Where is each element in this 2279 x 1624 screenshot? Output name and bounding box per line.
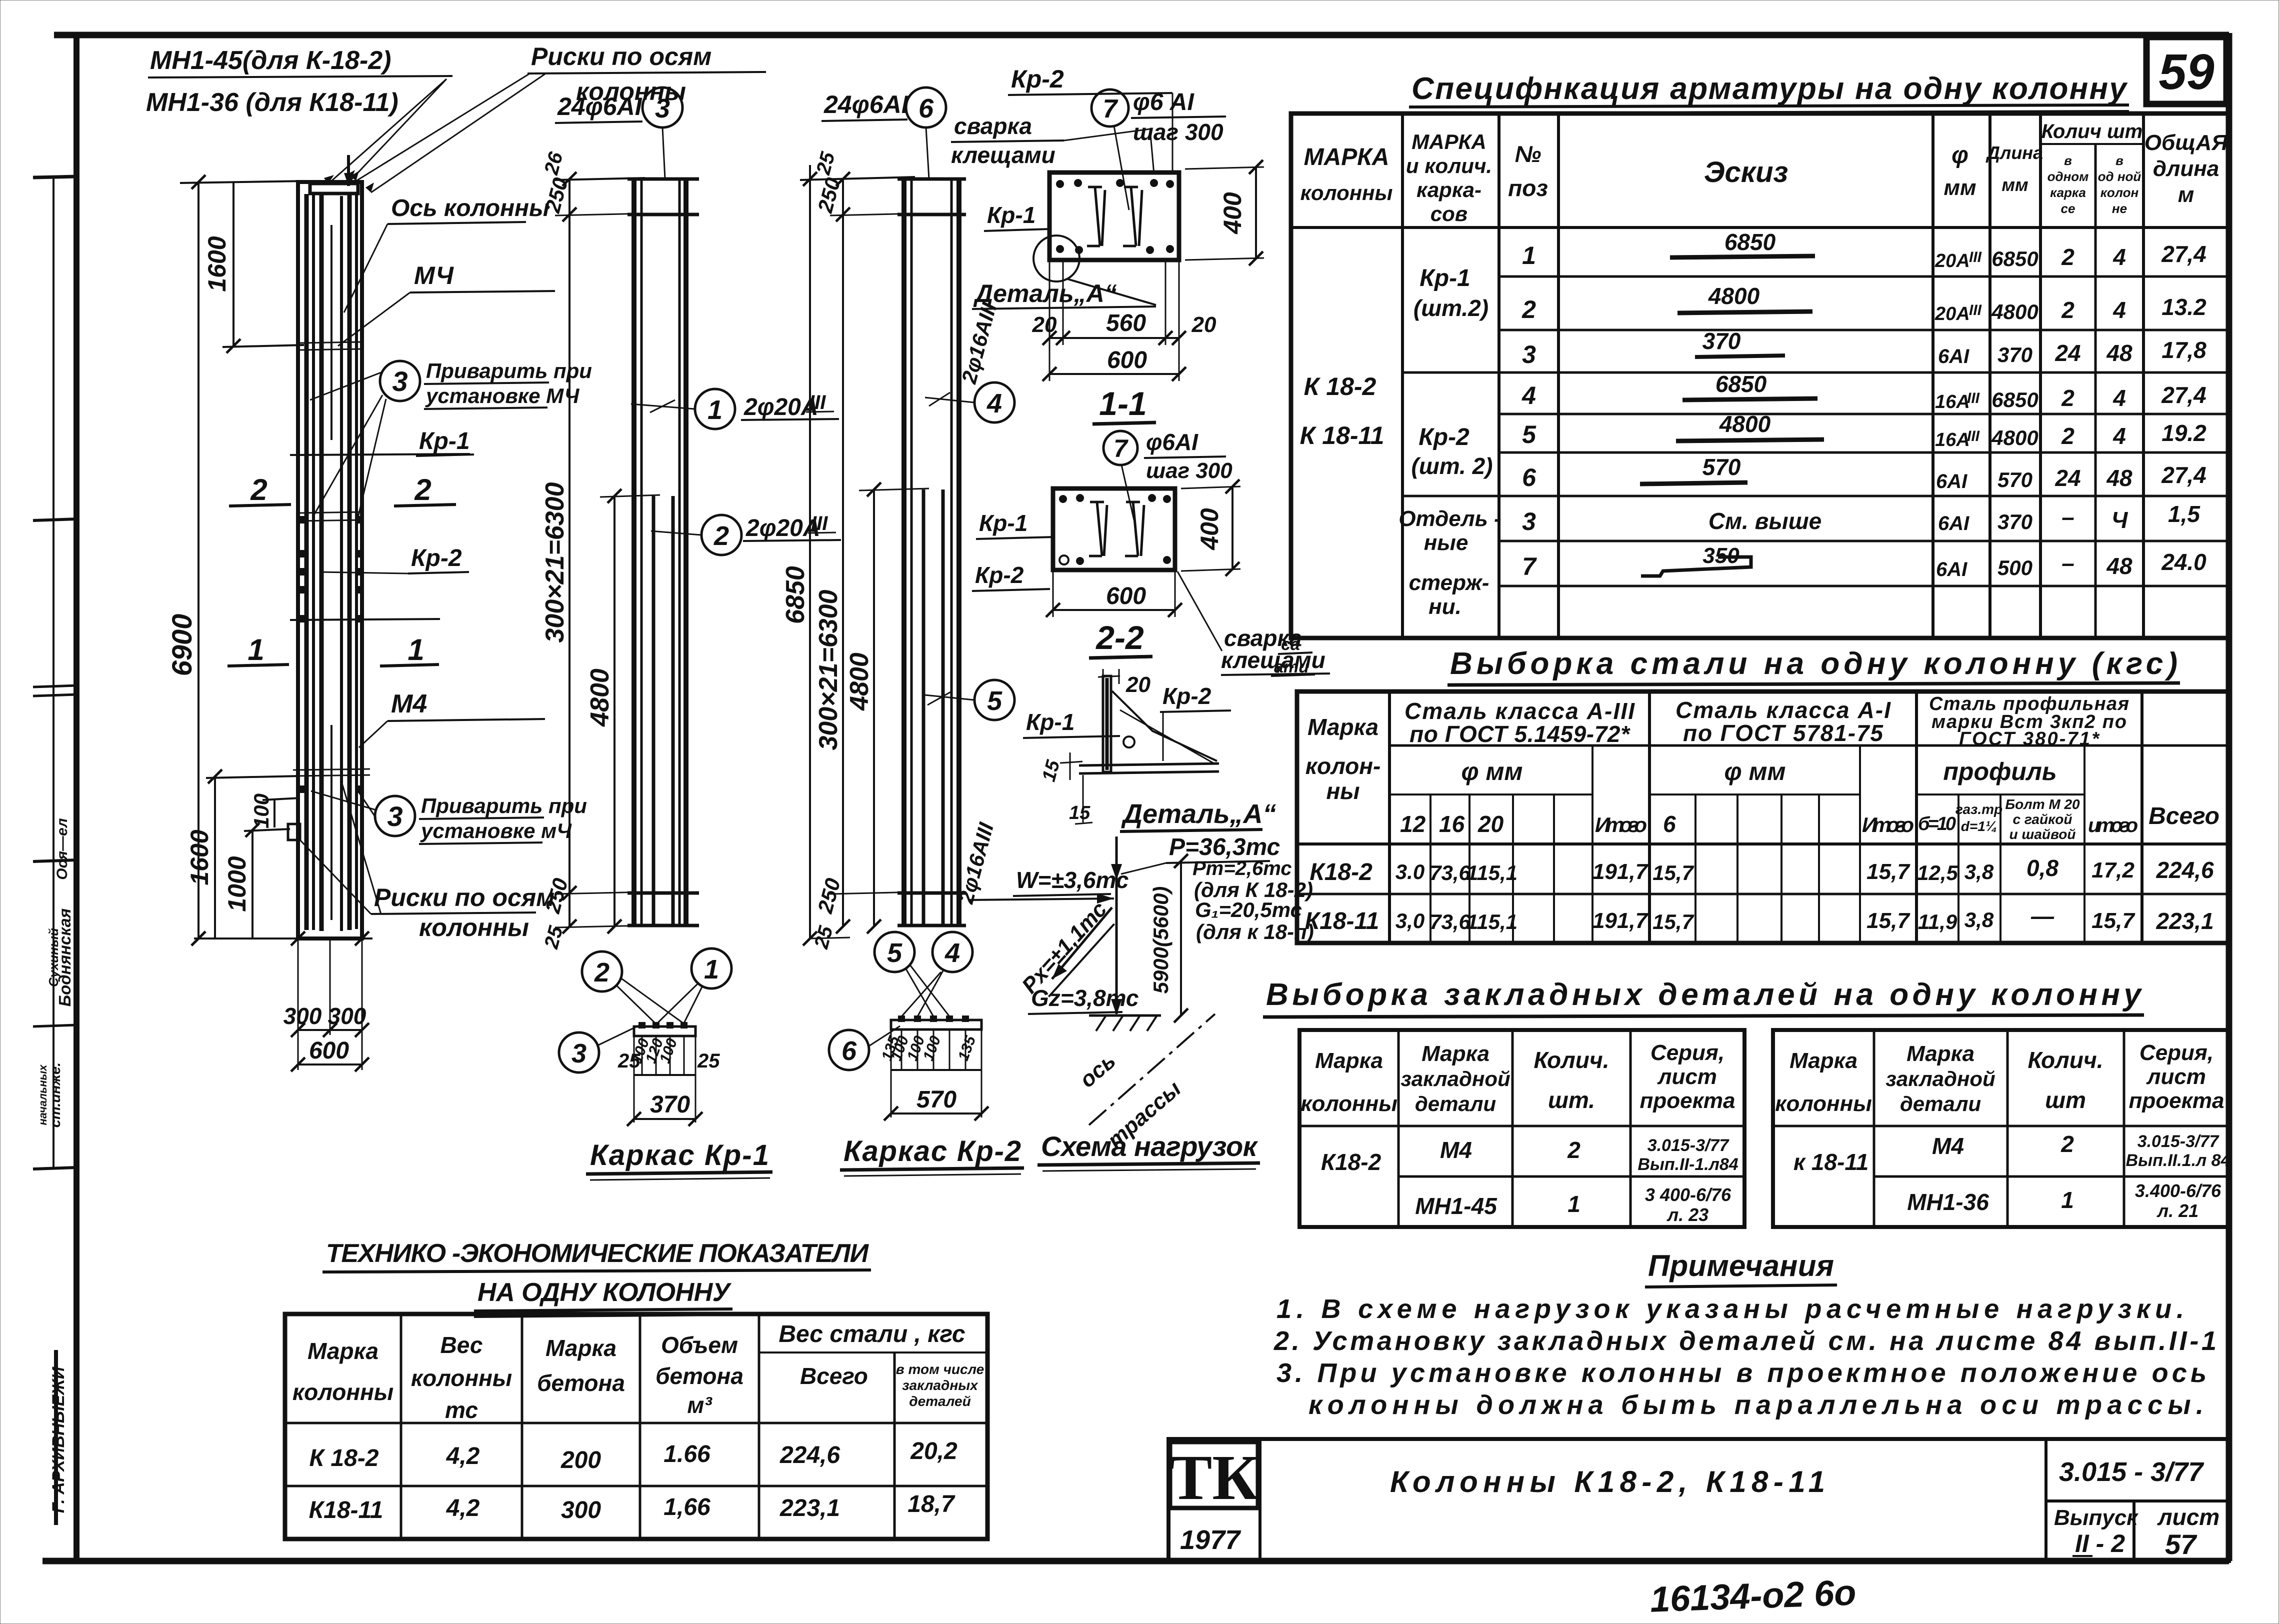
svg-text:25: 25 bbox=[697, 1050, 720, 1072]
svg-text:4800: 4800 bbox=[1991, 300, 2038, 323]
svg-text:III: III bbox=[811, 512, 828, 534]
callout circle 3 lower bbox=[311, 791, 587, 844]
svg-text:1,5: 1,5 bbox=[2168, 501, 2200, 527]
left signature strip bbox=[33, 176, 76, 1525]
svg-text:–: – bbox=[2061, 504, 2074, 530]
svg-text:4: 4 bbox=[944, 938, 960, 968]
svg-text:Gz=3,8тс: Gz=3,8тс bbox=[1031, 985, 1138, 1011]
svg-text:ст.инже.: ст.инже. bbox=[47, 1062, 63, 1127]
svg-text:закладных: закладных bbox=[902, 1377, 978, 1393]
svg-text:–: – bbox=[2061, 550, 2074, 576]
detail A drawing bbox=[1023, 669, 1276, 831]
svg-text:4800: 4800 bbox=[845, 652, 874, 711]
svg-text:15: 15 bbox=[1038, 757, 1064, 784]
label 24f6AI with circle 6 (cage 2) bbox=[821, 87, 946, 179]
svg-text:2-2: 2-2 bbox=[1095, 619, 1144, 656]
svg-text:6: 6 bbox=[918, 93, 934, 123]
svg-text:6: 6 bbox=[1663, 811, 1676, 837]
svg-text:24: 24 bbox=[2054, 340, 2080, 366]
svg-text:4: 4 bbox=[2112, 297, 2126, 323]
svg-text:са: са bbox=[1281, 635, 1300, 654]
svg-text:223,1: 223,1 bbox=[2155, 908, 2213, 934]
cage Kr-2 dimensions bbox=[781, 149, 929, 951]
svg-text:л. 21: л. 21 bbox=[2156, 1200, 2198, 1221]
svg-text:колонны: колонны bbox=[1775, 1091, 1872, 1116]
svg-text:17,2: 17,2 bbox=[2091, 858, 2134, 882]
svg-text:2. Установку закладных детал: 2. Установку закладных деталей см. на ли… bbox=[1273, 1326, 2216, 1356]
svg-text:Ося—ел: Ося—ел bbox=[54, 818, 70, 880]
svg-text:лист: лист bbox=[1657, 1064, 1717, 1089]
callout circle 2 with 2f20AIII bbox=[651, 512, 841, 555]
svg-text:поз: поз bbox=[1508, 175, 1548, 201]
svg-text:Pх=±1,1тс: Pх=±1,1тс bbox=[1017, 897, 1111, 998]
svg-text:6: 6 bbox=[1522, 463, 1536, 491]
svg-text:Объем: Объем bbox=[661, 1332, 738, 1358]
svg-text:одном: одном bbox=[2047, 169, 2089, 184]
svg-text:Кр-1: Кр-1 bbox=[1026, 709, 1074, 735]
dimension 1600 bottom bbox=[185, 769, 300, 938]
svg-text:ны: ны bbox=[1326, 778, 1359, 804]
title Vyborka stali bbox=[1447, 646, 2180, 685]
svg-text:115,1: 115,1 bbox=[1466, 910, 1517, 933]
svg-text:4: 4 bbox=[2112, 423, 2126, 449]
svg-text:57: 57 bbox=[2165, 1528, 2197, 1560]
svg-text:1: 1 bbox=[407, 633, 424, 666]
svg-text:Длина: Длина bbox=[1985, 142, 2043, 163]
svg-text:15,7: 15,7 bbox=[1652, 910, 1694, 933]
svg-text:3: 3 bbox=[1522, 507, 1536, 535]
svg-text:250: 250 bbox=[540, 175, 572, 215]
svg-text:1: 1 bbox=[2061, 1187, 2074, 1213]
svg-text:Кр-2: Кр-2 bbox=[1162, 683, 1211, 709]
svg-text:3.400-6/76: 3.400-6/76 bbox=[2135, 1180, 2221, 1201]
svg-text:15,7: 15,7 bbox=[1866, 908, 1910, 933]
svg-text:6850: 6850 bbox=[781, 566, 810, 624]
section marks 1 1 bbox=[227, 633, 439, 666]
svg-text:Кр-2: Кр-2 bbox=[1011, 65, 1064, 93]
weld squares M4 bbox=[300, 516, 307, 523]
svg-text:3: 3 bbox=[655, 93, 670, 123]
svg-text:бетона: бетона bbox=[537, 1370, 625, 1396]
svg-text:300×21=6300: 300×21=6300 bbox=[540, 482, 569, 642]
svg-text:6АI: 6АI bbox=[1938, 512, 1969, 534]
svg-text:Всего: Всего bbox=[800, 1363, 868, 1389]
svg-text:се: се bbox=[2061, 201, 2075, 216]
svg-text:4: 4 bbox=[2112, 385, 2126, 411]
svg-text:191,7: 191,7 bbox=[1592, 859, 1649, 884]
svg-text:профиль: профиль bbox=[1943, 757, 2056, 785]
svg-text:2: 2 bbox=[2060, 1131, 2074, 1157]
svg-text:570: 570 bbox=[1702, 454, 1741, 480]
svg-text:Марка: Марка bbox=[545, 1335, 616, 1361]
svg-text:3,8: 3,8 bbox=[1964, 860, 1994, 883]
technical-economic table bbox=[285, 1314, 987, 1539]
section 1-1 dims bbox=[972, 160, 1264, 424]
svg-text:48: 48 bbox=[2106, 553, 2132, 579]
svg-text:Марка: Марка bbox=[1315, 1048, 1383, 1073]
svg-text:3.015-3/77: 3.015-3/77 bbox=[1647, 1136, 1730, 1155]
svg-text:Примечания: Примечания bbox=[1648, 1249, 1834, 1282]
svg-text:Вес стали , кгс: Вес стали , кгс bbox=[778, 1321, 965, 1347]
svg-text:стерж-: стерж- bbox=[1409, 570, 1489, 595]
svg-text:Ось колонны: Ось колонны bbox=[391, 195, 549, 221]
cage Kr-1 dimensions bbox=[540, 149, 660, 951]
svg-text:шаг 300: шаг 300 bbox=[1146, 458, 1232, 483]
svg-text:1,66: 1,66 bbox=[663, 1494, 710, 1520]
svg-text:3.015-3/77: 3.015-3/77 bbox=[2137, 1132, 2220, 1151]
svg-text:4800: 4800 bbox=[585, 668, 614, 727]
svg-text:3: 3 bbox=[571, 1038, 586, 1068]
svg-text:Всего: Всего bbox=[2148, 803, 2219, 829]
svg-text:МЧ: МЧ bbox=[414, 261, 454, 289]
svg-text:шаг 300: шаг 300 bbox=[1133, 119, 1223, 145]
bottom dimension line of column bbox=[191, 931, 372, 945]
svg-text:1600: 1600 bbox=[185, 829, 213, 885]
section cut line 2-2 bbox=[290, 454, 470, 455]
svg-text:5: 5 bbox=[887, 938, 902, 968]
svg-text:2: 2 bbox=[1567, 1137, 1580, 1163]
svg-text:15,7: 15,7 bbox=[1866, 859, 1910, 884]
svg-text:(шт.2): (шт.2) bbox=[1413, 295, 1488, 321]
svg-text:Риски по осям: Риски по осям bbox=[531, 42, 711, 70]
svg-text:4,2: 4,2 bbox=[446, 1443, 480, 1469]
svg-text:6850: 6850 bbox=[1715, 371, 1767, 397]
svg-text:5: 5 bbox=[1522, 420, 1536, 448]
handwritten stamp 16134-02 bbox=[1649, 1572, 1857, 1619]
svg-text:Отдель -: Отдель - bbox=[1398, 506, 1501, 531]
svg-text:Серия,: Серия, bbox=[1650, 1040, 1724, 1065]
svg-text:карка-: карка- bbox=[1416, 178, 1481, 201]
svg-text:20: 20 bbox=[1191, 312, 1216, 337]
svg-text:лист: лист bbox=[2146, 1064, 2206, 1089]
svg-text:12,5: 12,5 bbox=[1917, 861, 1958, 884]
stray handwriting bbox=[1271, 635, 1315, 676]
svg-text:6: 6 bbox=[841, 1036, 857, 1066]
svg-text:Болт М 20: Болт М 20 bbox=[2005, 796, 2080, 812]
label MCh bbox=[338, 261, 555, 346]
svg-text:6900: 6900 bbox=[166, 614, 197, 676]
svg-text:ось: ось bbox=[1075, 1048, 1120, 1092]
svg-text:Кр-1: Кр-1 bbox=[979, 510, 1027, 536]
load scheme bbox=[969, 834, 1314, 1153]
specification table grid bbox=[1291, 113, 2229, 638]
svg-text:73,6: 73,6 bbox=[1429, 861, 1470, 884]
callout circle 5 with 2f16AIII bbox=[925, 680, 1014, 906]
svg-text:3. При установке колонны в: 3. При установке колонны в проектное пол… bbox=[1276, 1358, 2206, 1388]
svg-text:колон: колон bbox=[2100, 185, 2139, 200]
svg-text:6850: 6850 bbox=[1991, 388, 2038, 411]
embedded plate MN1 at top bbox=[310, 183, 358, 193]
svg-text:16А: 16А bbox=[1935, 391, 1970, 412]
svg-text:4: 4 bbox=[1521, 381, 1536, 409]
svg-text:Выпуск: Выпуск bbox=[2054, 1505, 2139, 1530]
svg-text:по ГОСТ 5.1459-72*: по ГОСТ 5.1459-72* bbox=[1409, 721, 1630, 747]
svg-text:12: 12 bbox=[1400, 811, 1426, 837]
svg-text:24φ6АI: 24φ6АI bbox=[557, 92, 642, 120]
svg-text:1. В схеме нагрузок указаны: 1. В схеме нагрузок указаны расчетные на… bbox=[1276, 1294, 2184, 1324]
svg-text:7: 7 bbox=[1522, 552, 1537, 580]
svg-text:карка: карка bbox=[2050, 185, 2086, 200]
svg-text:Сухиный: Сухиный bbox=[46, 928, 61, 987]
svg-text:с гайкой: с гайкой bbox=[2013, 811, 2072, 827]
callout circle 7 with f6AI shag 300 (top) bbox=[1091, 89, 1226, 210]
svg-text:Кр-1: Кр-1 bbox=[1419, 265, 1470, 291]
svg-text:и колич.: и колич. bbox=[1406, 154, 1492, 177]
svg-text:колонны: колонны bbox=[411, 1365, 512, 1391]
svg-text:Эскиз: Эскиз bbox=[1704, 156, 1788, 188]
svg-text:№: № bbox=[1515, 141, 1541, 167]
svg-text:200: 200 bbox=[560, 1447, 601, 1473]
svg-text:Риски по осям: Риски по осям bbox=[374, 883, 554, 911]
callout circle 1 with 2f20AIII bbox=[631, 389, 839, 429]
svg-text:клещами: клещами bbox=[1221, 647, 1325, 673]
svg-text:24: 24 bbox=[2054, 465, 2080, 491]
svg-text:17,8: 17,8 bbox=[2161, 337, 2206, 363]
svg-text:К18-2: К18-2 bbox=[1321, 1149, 1381, 1175]
svg-text:370: 370 bbox=[1997, 510, 2032, 533]
label Riski po osyam kolonny (top) bbox=[344, 42, 766, 192]
svg-text:детали: детали bbox=[1415, 1092, 1496, 1115]
svg-text:2: 2 bbox=[713, 521, 729, 551]
svg-text:Выборка закладных деталей на о: Выборка закладных деталей на одну колонн… bbox=[1266, 977, 2143, 1012]
svg-text:27,4: 27,4 bbox=[2161, 462, 2206, 488]
svg-text:не: не bbox=[2112, 201, 2127, 216]
svg-text:колонны: колонны bbox=[292, 1379, 393, 1405]
svg-text:Сталь класса А-III: Сталь класса А-III bbox=[1404, 698, 1635, 724]
svg-text:20: 20 bbox=[1477, 811, 1504, 837]
svg-text:20: 20 bbox=[1032, 312, 1057, 337]
svg-text:шт: шт bbox=[2045, 1087, 2086, 1113]
svg-text:19.2: 19.2 bbox=[2161, 420, 2206, 446]
svg-text:Марка: Марка bbox=[1307, 714, 1378, 740]
svg-text:детали: детали bbox=[1900, 1092, 1981, 1115]
svg-text:11,9: 11,9 bbox=[1918, 910, 1957, 933]
svg-text:1: 1 bbox=[707, 395, 722, 425]
title block bbox=[1168, 1439, 2229, 1561]
svg-text:2φ16АIII: 2φ16АIII bbox=[957, 299, 1001, 386]
svg-text:Приварить при: Приварить при bbox=[426, 359, 592, 382]
label svarka kleschami (bottom) bbox=[1177, 571, 1330, 675]
svg-text:в том числе: в том числе bbox=[896, 1361, 984, 1377]
svg-text:Кр-2: Кр-2 bbox=[1418, 424, 1469, 450]
svg-text:7: 7 bbox=[1113, 434, 1128, 462]
svg-text:0,8: 0,8 bbox=[2026, 855, 2058, 881]
svg-text:6850: 6850 bbox=[1724, 229, 1776, 255]
svg-text:К 18-2: К 18-2 bbox=[309, 1445, 379, 1471]
svg-text:л. 23: л. 23 bbox=[1666, 1204, 1708, 1225]
svg-text:бетона: бетона bbox=[655, 1363, 743, 1389]
svg-text:16: 16 bbox=[1439, 811, 1465, 837]
svg-text:1: 1 bbox=[1567, 1191, 1580, 1217]
svg-text:М4: М4 bbox=[391, 689, 427, 718]
svg-text:6850: 6850 bbox=[1991, 247, 2038, 270]
svg-text:колонны должна быть паралле: колонны должна быть параллельна оси трас… bbox=[1308, 1390, 2203, 1420]
svg-text:2: 2 bbox=[1521, 295, 1536, 323]
svg-text:ТК: ТК bbox=[1169, 1442, 1258, 1513]
svg-text:600: 600 bbox=[309, 1037, 349, 1064]
label 24f6AI with circle 3 (cage 1) bbox=[555, 87, 682, 179]
svg-text:сварка: сварка bbox=[954, 113, 1032, 139]
svg-text:φ6АI: φ6АI bbox=[1146, 429, 1198, 455]
steel selection table grid bbox=[1297, 691, 2229, 943]
svg-text:Колич.: Колич. bbox=[1534, 1047, 1609, 1073]
svg-text:Деталь„А“: Деталь„А“ bbox=[973, 279, 1117, 307]
svg-text:3: 3 bbox=[387, 800, 402, 832]
label MN1-45 / MN1-36 bbox=[146, 46, 452, 184]
svg-text:59: 59 bbox=[2158, 44, 2214, 100]
svg-text:б=10: б=10 bbox=[1918, 813, 1956, 834]
svg-text:III: III bbox=[1967, 428, 1980, 444]
svg-text:м³: м³ bbox=[687, 1392, 712, 1418]
svg-text:Марка: Марка bbox=[1906, 1041, 1974, 1066]
svg-text:6АI: 6АI bbox=[1938, 345, 1969, 367]
steel selection data rows bbox=[1305, 855, 2214, 934]
title Vyborka zakladnykh detaley bbox=[1263, 977, 2144, 1017]
svg-text:2: 2 bbox=[594, 957, 609, 987]
svg-text:18,7: 18,7 bbox=[907, 1491, 955, 1517]
svg-text:3.015 - 3/77: 3.015 - 3/77 bbox=[2059, 1457, 2204, 1487]
svg-text:Итого: Итого bbox=[1595, 813, 1647, 836]
svg-text:по ГОСТ 5781-75: по ГОСТ 5781-75 bbox=[1683, 720, 1883, 746]
svg-text:Кр-1: Кр-1 bbox=[419, 428, 470, 454]
embedded details table right bbox=[1773, 1030, 2230, 1227]
svg-text:МАРКА: МАРКА bbox=[1304, 144, 1389, 170]
svg-text:16134-о2 6о: 16134-о2 6о bbox=[1649, 1572, 1857, 1619]
svg-text:300: 300 bbox=[283, 1003, 322, 1029]
svg-text:25: 25 bbox=[617, 1050, 640, 1072]
label M4 bbox=[359, 689, 545, 747]
label Os kolonny bbox=[344, 195, 549, 312]
svg-text:колонны: колонны bbox=[1300, 1091, 1397, 1116]
svg-text:1977: 1977 bbox=[1180, 1525, 1241, 1555]
svg-text:20: 20 bbox=[1125, 672, 1150, 697]
caption Karkas Kr-2 bbox=[840, 1135, 1024, 1176]
svg-text:Вып.II.1.л 84: Вып.II.1.л 84 bbox=[2126, 1151, 2230, 1170]
svg-text:25: 25 bbox=[810, 923, 837, 951]
svg-text:24.0: 24.0 bbox=[2161, 549, 2206, 575]
label Riski po osyam kolonny (bottom) bbox=[300, 780, 554, 941]
column axis line bbox=[330, 225, 332, 440]
callout circle 3 upper: privarit pri ustanovke MCh bbox=[310, 359, 592, 517]
svg-text:3: 3 bbox=[392, 365, 407, 397]
svg-text:К 18-11: К 18-11 bbox=[1300, 421, 1384, 449]
svg-text:М4: М4 bbox=[1932, 1133, 1964, 1159]
svg-text:Деталь„А“: Деталь„А“ bbox=[1121, 799, 1276, 829]
svg-text:установке мЧ: установке мЧ bbox=[420, 819, 572, 842]
svg-text:МН1-45: МН1-45 bbox=[1415, 1193, 1497, 1219]
svg-text:224,6: 224,6 bbox=[2155, 857, 2214, 883]
svg-text:3: 3 bbox=[1522, 340, 1536, 368]
svg-text:Каркас Кр-2: Каркас Кр-2 bbox=[843, 1135, 1021, 1167]
svg-text:φ: φ bbox=[1951, 142, 1968, 168]
title Tekhniko-ekonomicheskie pokazateli bbox=[322, 1239, 871, 1317]
svg-text:5: 5 bbox=[987, 686, 1002, 716]
dimensions 300 300 600 below column bbox=[283, 938, 369, 1071]
svg-text:48: 48 bbox=[2106, 465, 2132, 491]
svg-text:4800: 4800 bbox=[1719, 411, 1771, 437]
embedded details table left bbox=[1299, 1030, 1744, 1227]
svg-text:Pт=2,6тс: Pт=2,6тс bbox=[1192, 857, 1292, 879]
caption Karkas Kr-1 bbox=[586, 1139, 772, 1180]
svg-text:III: III bbox=[1969, 249, 1982, 265]
label Kr-1 pointer bbox=[416, 428, 474, 456]
svg-text:5900(5600): 5900(5600) bbox=[1149, 886, 1172, 994]
svg-text:длина: длина bbox=[2153, 156, 2219, 181]
svg-text:МН1-45(для К-18-2): МН1-45(для К-18-2) bbox=[150, 46, 391, 75]
section 2-2 dims bbox=[972, 479, 1240, 658]
svg-text:начальных: начальных bbox=[36, 1064, 49, 1125]
svg-text:Итого: Итого bbox=[1862, 813, 1914, 836]
svg-text:закладной: закладной bbox=[1885, 1067, 1995, 1090]
svg-text:2: 2 bbox=[2061, 423, 2074, 449]
specification table header texts bbox=[1300, 120, 2228, 225]
svg-text:600: 600 bbox=[1106, 583, 1146, 609]
svg-text:Колонны К18-2, К18-11: Колонны К18-2, К18-11 bbox=[1390, 1465, 1825, 1498]
specification table left column texts bbox=[1300, 265, 1501, 619]
svg-text:26: 26 bbox=[540, 149, 567, 177]
svg-text:6АI: 6АI bbox=[1936, 470, 1967, 492]
svg-text:Серия,: Серия, bbox=[2139, 1040, 2213, 1065]
svg-text:G₁=20,5тс: G₁=20,5тс bbox=[1195, 898, 1302, 921]
svg-text:II - 2: II - 2 bbox=[2075, 1529, 2125, 1557]
svg-text:1.66: 1.66 bbox=[663, 1441, 710, 1467]
svg-text:III: III bbox=[1969, 302, 1982, 318]
svg-text:300×21=6300: 300×21=6300 bbox=[814, 589, 843, 750]
svg-text:2: 2 bbox=[250, 473, 267, 506]
svg-text:Ч: Ч bbox=[2111, 507, 2128, 533]
svg-text:1: 1 bbox=[704, 954, 719, 984]
rebar cage Kr-1 bbox=[627, 179, 699, 926]
svg-text:1000: 1000 bbox=[223, 856, 251, 911]
svg-text:7: 7 bbox=[1103, 94, 1118, 123]
svg-text:370: 370 bbox=[1702, 328, 1741, 354]
svg-text:III: III bbox=[1967, 390, 1980, 406]
svg-text:1600: 1600 bbox=[203, 236, 231, 291]
axis mark lines at bottom bbox=[293, 769, 370, 770]
svg-text:600: 600 bbox=[1107, 347, 1147, 373]
sheet number box 59 bbox=[2146, 37, 2226, 104]
svg-text:К18-2: К18-2 bbox=[1309, 859, 1372, 885]
svg-text:мм: мм bbox=[2001, 174, 2028, 195]
svg-text:в: в bbox=[2064, 153, 2072, 168]
svg-text:к 18-11: к 18-11 bbox=[1793, 1149, 1868, 1175]
svg-text:Г. АРХИВНЫЕЖИ: Г. АРХИВНЫЕЖИ bbox=[49, 1366, 68, 1513]
svg-text:W=±3,6тс: W=±3,6тс bbox=[1016, 867, 1128, 893]
svg-text:27,4: 27,4 bbox=[2161, 241, 2206, 267]
svg-text:М4: М4 bbox=[1440, 1137, 1472, 1163]
svg-text:100: 100 bbox=[249, 793, 273, 828]
svg-text:ОбщАЯ: ОбщАЯ bbox=[2144, 130, 2228, 155]
svg-text:27,4: 27,4 bbox=[2161, 382, 2206, 408]
svg-text:400: 400 bbox=[1218, 192, 1246, 234]
svg-text:колонны: колонны bbox=[1300, 181, 1393, 204]
plan dims 25 100 120 100 25 bbox=[641, 1036, 643, 1075]
svg-text:370: 370 bbox=[650, 1091, 690, 1118]
svg-text:од ной: од ной bbox=[2098, 169, 2141, 184]
specification table data rows bbox=[1521, 229, 2206, 580]
svg-text:500: 500 bbox=[1997, 556, 2032, 579]
svg-text:3 400-6/76: 3 400-6/76 bbox=[1645, 1184, 1731, 1205]
svg-text:300: 300 bbox=[328, 1003, 366, 1029]
svg-text:в: в bbox=[2115, 153, 2123, 168]
dimension 1000 bbox=[223, 823, 290, 938]
svg-text:224,6: 224,6 bbox=[779, 1442, 840, 1468]
svg-text:135: 135 bbox=[955, 1033, 979, 1063]
svg-text:сов: сов bbox=[1430, 202, 1467, 225]
svg-text:d=1¼: d=1¼ bbox=[1961, 818, 1997, 834]
dimension 6900 bbox=[166, 175, 305, 945]
section 1-1 cross-section bbox=[1049, 172, 1179, 260]
